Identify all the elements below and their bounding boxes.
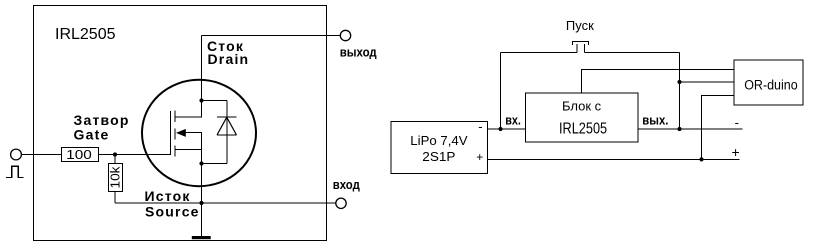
svg-text:100: 100 xyxy=(66,148,92,162)
battery BT1 LiPo box xyxy=(391,122,488,174)
wire to button left contact xyxy=(501,52,578,54)
wire block output xyxy=(638,128,743,130)
svg-text:Gate: Gate xyxy=(74,127,110,143)
Q1 drain lead inside xyxy=(175,101,202,118)
svg-text:+: + xyxy=(476,150,483,164)
wire button down to output net xyxy=(679,53,681,130)
wire block top to OR-duino pin1 xyxy=(582,70,734,93)
source node dot xyxy=(199,161,203,165)
body diode D1 triangle sides xyxy=(217,117,237,135)
junction node to OR-duino xyxy=(677,80,681,84)
pushbutton SB1 right post xyxy=(584,44,586,53)
Q1 channel middle segment xyxy=(174,128,176,139)
wire gate terminal to R1 xyxy=(22,154,63,156)
svg-text:Исток: Исток xyxy=(145,188,191,204)
Q1 gate bar xyxy=(170,111,172,155)
wire battery plus net xyxy=(488,158,740,160)
svg-text:OR-duino: OR-duino xyxy=(744,77,798,92)
svg-text:Затвор: Затвор xyxy=(74,112,130,128)
Q1 channel top segment xyxy=(174,111,176,122)
body diode D1 triangle base xyxy=(217,134,237,136)
wire junction up to button xyxy=(500,53,502,130)
svg-text:IRL2505: IRL2505 xyxy=(55,26,116,43)
body diode D1 vertical xyxy=(226,101,228,164)
wire junction to OR-duino pin2 xyxy=(680,81,734,83)
block box Blok s IRL2505 xyxy=(526,93,638,142)
svg-text:Source: Source xyxy=(145,204,200,220)
pulse signal icon xyxy=(6,166,24,177)
junction node gate/R2 xyxy=(113,152,117,156)
body diode D1 cathode bar xyxy=(217,116,237,118)
svg-text:вх.: вх. xyxy=(505,112,521,127)
junction node plus net xyxy=(699,157,703,161)
Q1 body arrow xyxy=(176,129,186,137)
wire source down to ground xyxy=(201,164,203,237)
svg-text:Drain: Drain xyxy=(208,51,250,67)
svg-text:Пуск: Пуск xyxy=(566,18,594,33)
svg-text:выход: выход xyxy=(340,44,378,59)
resistor R2 10k xyxy=(109,164,123,192)
Q1 channel bottom segment xyxy=(174,146,176,157)
svg-text:вых.: вых. xyxy=(642,112,668,127)
drain node dot xyxy=(199,98,203,102)
svg-text:-: - xyxy=(735,115,739,130)
controller box OR-duino xyxy=(734,60,803,105)
svg-text:2S1P: 2S1P xyxy=(422,149,455,164)
svg-text:10k: 10k xyxy=(109,166,123,189)
input terminal (vhod) circle xyxy=(336,198,346,208)
junction node output/button net xyxy=(677,127,681,131)
junction node minus/button xyxy=(498,127,502,131)
input terminal (gate) circle xyxy=(11,149,22,160)
pushbutton SB1 left post xyxy=(576,44,578,53)
transistor Q1 body circle xyxy=(142,80,256,186)
resistor R1 100 xyxy=(62,148,99,162)
junction node source/input xyxy=(199,201,203,205)
svg-text:-: - xyxy=(478,119,482,134)
svg-text:вход: вход xyxy=(333,177,361,192)
module outline box IRL2505 xyxy=(34,6,327,241)
ground bar xyxy=(192,236,211,239)
output terminal (vyhod) circle xyxy=(340,30,350,40)
wire battery minus to block input xyxy=(488,128,527,130)
wire drain to output terminal xyxy=(202,35,341,37)
wire drain up xyxy=(201,36,203,101)
svg-text:+: + xyxy=(732,144,740,160)
wire R1 to gate of Q1 xyxy=(99,154,171,156)
pushbutton SB1 actuator cap xyxy=(573,42,589,46)
body diode D1 top connection xyxy=(202,100,227,102)
wire R2 to source net xyxy=(114,192,116,204)
wire OR-duino pin3 to plus net xyxy=(702,95,734,159)
svg-text:LiPo 7,4V: LiPo 7,4V xyxy=(410,133,468,148)
wire junction to R2 xyxy=(114,155,116,164)
wire source net to input terminal xyxy=(115,202,336,204)
svg-text:Блок с: Блок с xyxy=(562,99,602,114)
Q1 body lead xyxy=(185,133,202,164)
Q1 source lead inside xyxy=(175,148,202,150)
svg-text:IRL2505: IRL2505 xyxy=(559,121,607,138)
body diode D1 bottom connection xyxy=(202,163,227,165)
wire button right contact xyxy=(585,52,680,54)
